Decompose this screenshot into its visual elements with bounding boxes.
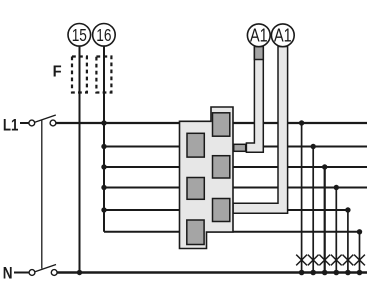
switch pole on L1	[29, 115, 56, 126]
svg-text:L1: L1	[3, 116, 19, 135]
junction dot wire15/N	[77, 270, 82, 275]
terminal circle 16	[93, 24, 116, 47]
junction dot N/drop3	[322, 270, 328, 276]
mechanical link between switch poles	[41, 120, 43, 268]
lamp X1	[296, 255, 307, 266]
lamp drop wire 5	[347, 210, 349, 273]
junction dot wire16/rail2	[101, 144, 106, 149]
wire L1 rail	[20, 122, 367, 124]
control wire A1 (right, with bend to device right edge)	[233, 47, 288, 214]
lamp drop wire 2	[312, 147, 314, 273]
wire rail 6	[104, 231, 360, 233]
junction dot N/drop6	[357, 270, 363, 276]
lamp drop wire 4	[335, 188, 337, 273]
junction dot N/drop5	[345, 270, 351, 276]
wire N rail	[14, 272, 367, 274]
wire 15 (vertical from terminal 15 to N)	[79, 46, 81, 273]
terminal circle A1 left	[247, 24, 270, 47]
control wire A1 (left, with bend to device tab)	[246, 47, 263, 153]
wire 16 feeder (vertical from terminal 16 down to bottom rail)	[103, 46, 105, 232]
lamp X6	[354, 255, 365, 266]
junction dot wire16/rail3	[101, 164, 106, 169]
terminal circle 15	[68, 24, 91, 47]
junction dot rail2/drop2	[311, 144, 316, 149]
control wire A1 dark top segment	[254, 47, 263, 60]
junction dot wire16/rail5	[101, 207, 106, 212]
lamp drop wire 3	[324, 167, 326, 273]
lamp X2	[308, 255, 319, 266]
junction dot rail6/drop6	[357, 229, 362, 234]
junction dot rail5/drop5	[345, 207, 350, 212]
wire rail 5	[104, 209, 348, 211]
module button 3	[213, 156, 230, 178]
module button 6	[187, 220, 204, 245]
lamp X4	[331, 255, 342, 266]
svg-text:15: 15	[72, 25, 87, 45]
wire rail 2	[104, 146, 367, 148]
lamp X5	[343, 255, 354, 266]
dimmer module body	[180, 107, 234, 249]
junction dot N/drop1	[299, 270, 305, 276]
wire rail 3	[104, 166, 367, 168]
junction dot N/drop4	[334, 270, 340, 276]
module button 1	[213, 113, 230, 136]
switch pole on N	[29, 265, 57, 276]
junction dot N/drop2	[310, 270, 316, 276]
module A1 terminal tab	[234, 144, 246, 151]
svg-text:16: 16	[96, 25, 111, 45]
lamp drop wire 6	[359, 232, 361, 273]
junction dot rail4/drop4	[334, 185, 339, 190]
wire rail 4	[104, 187, 367, 189]
module button 5	[213, 199, 230, 222]
junction dot on L1 at wire 16	[101, 120, 106, 125]
fuse F (right dashed box)	[96, 57, 111, 93]
module button 4	[187, 178, 204, 200]
junction dot rail3/drop3	[322, 164, 327, 169]
lamp X3	[319, 255, 330, 266]
module button 2	[187, 133, 204, 157]
junction dot wire16/rail4	[101, 185, 106, 190]
lamp drop wire 1	[301, 123, 303, 273]
terminal circle A1 right	[271, 24, 294, 47]
svg-text:A1: A1	[274, 26, 292, 46]
svg-text:F: F	[53, 64, 62, 81]
fuse F (left dashed box)	[72, 57, 87, 93]
svg-text:A1: A1	[250, 26, 268, 46]
junction dot L1/drop1	[299, 120, 304, 125]
svg-text:N: N	[3, 263, 13, 282]
